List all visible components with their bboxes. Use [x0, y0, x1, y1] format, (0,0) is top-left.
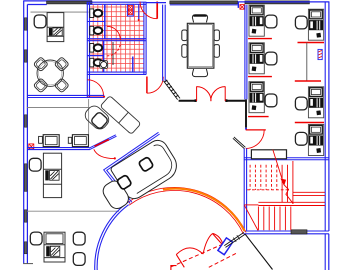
wall: conference west (double): [162, 5, 164, 81]
entrance door arc 2: [203, 233, 213, 254]
conf chair west 1: [182, 30, 187, 41]
wall: left exterior inner line: [26, 5, 28, 264]
wall: hall diagonal (double black): [234, 137, 246, 147]
chair angled workstation: [90, 111, 108, 129]
entrance axis dashed 2: [209, 252, 238, 267]
entrance door arc 1: [176, 248, 203, 255]
stair arrow head: [280, 179, 286, 186]
reception desk main: [110, 137, 182, 203]
desk B mid-left: [68, 137, 71, 143]
window mullion blocks on left wall: [24, 18, 27, 254]
wall marker right: [318, 49, 322, 59]
counter line y=211: [27, 210, 119, 212]
entrance axis dashed 1: [171, 242, 227, 267]
chair bottom-left east1: [73, 232, 85, 245]
WC shower wall: [132, 57, 134, 73]
stair upper flight treads (dashed): [247, 165, 288, 190]
chair lower-left office: [29, 158, 41, 171]
workstation R1 (mirrored): [308, 9, 323, 40]
conf chair west 2: [182, 45, 187, 58]
conference table: [187, 23, 214, 68]
column marker left wall: [29, 144, 34, 149]
wash basin: [100, 61, 108, 69]
round meeting table: [37, 60, 63, 86]
conf chair north: [192, 15, 207, 23]
entrance door arc 3: [213, 233, 224, 245]
vestibule door leaf: [88, 95, 104, 97]
desk bottom-left: [44, 232, 65, 262]
vestibule door arc: [88, 80, 104, 96]
stair landing lines: [293, 191, 325, 193]
door arc corridor bottom: [147, 77, 163, 93]
bathroom floor tile grid: [90, 5, 144, 72]
door arc corridor top: [140, 2, 157, 19]
lobby curved glazing red (double arc): [127, 187, 246, 232]
partition L1: [248, 38, 272, 40]
partition R2: [295, 80, 321, 82]
wall: y=148 horizontal (double): [27, 147, 89, 149]
desk top-left office: [47, 13, 64, 42]
entrance corner mark: [171, 266, 177, 270]
table chair NW: [33, 57, 48, 72]
wall: stair room west (double): [243, 148, 245, 230]
wall: bathroom west (double): [86, 2, 88, 97]
ramp cross ticks: [233, 235, 240, 242]
wall: black segment below: [245, 99, 247, 127]
toilet 3: [90, 44, 102, 53]
wall: stair room north (double): [244, 157, 329, 159]
counter line under top wall: [31, 11, 89, 13]
wall: WC divider vertical upper: [104, 4, 106, 38]
workstation L3: [249, 82, 264, 113]
partition R3: [295, 122, 324, 124]
table chair SE: [54, 78, 69, 93]
node: wall end dot: [103, 96, 105, 98]
door jamb blocks: [195, 99, 197, 102]
entrance door leaf 2: [213, 234, 224, 246]
counter line y=107: [27, 107, 90, 109]
entrance mat (blue): [218, 238, 233, 255]
chair R1: [295, 16, 307, 29]
workstation R3 (mirrored): [308, 125, 323, 156]
conf chair east 1: [214, 30, 219, 41]
wall: WC sub divider: [87, 55, 103, 57]
window band conference top: [170, 1, 238, 4]
door arc stair hall: [246, 130, 264, 148]
toilet 2: [90, 26, 102, 35]
wall: top exterior (office): [23, 0, 92, 2]
stair stringers: [244, 150, 325, 231]
reception chair 2: [138, 157, 153, 172]
chair L1: [265, 15, 277, 28]
window band top-left: [47, 1, 92, 4]
wall: right exterior lower (double): [324, 234, 326, 270]
door leaf corridor bottom: [146, 77, 148, 94]
window sill line right: [306, 43, 308, 82]
sideboard table: [251, 150, 286, 159]
window band right room: [245, 1, 310, 4]
wall: mid office east boundary: [88, 99, 90, 148]
desk lower-left office: [43, 153, 61, 197]
wall: WC stall divider y=21.5: [87, 21, 105, 23]
door arc reception entry: [94, 149, 115, 158]
stair direction arrow: [273, 150, 284, 185]
chair L2: [265, 52, 277, 65]
door threshold block: [291, 230, 307, 234]
site boundary diagonal: [245, 234, 273, 270]
double door conference (M arcs): [197, 86, 226, 101]
wall: left exterior outer line: [23, 1, 25, 264]
conf chair east 2: [214, 45, 219, 58]
wall: reception diagonal SW inner line: [107, 134, 160, 202]
chair bottom-left west: [30, 232, 42, 245]
door arc WC lower: [107, 43, 120, 56]
chair R3: [295, 132, 307, 145]
wall: diagonal A (double): [89, 135, 116, 148]
wall: right exterior (double): [324, 2, 326, 231]
reception desk return: [100, 178, 131, 211]
wall: WC bottom (double): [87, 71, 146, 73]
chair R2: [295, 97, 307, 110]
wall: office east / conference east (double): [244, 5, 246, 100]
wall: office/corridor horizontal y=96 (double): [27, 94, 104, 96]
chair bottom-left east2: [73, 253, 85, 266]
conf chair south: [192, 69, 207, 77]
stair lower flight treads: [257, 207, 259, 231]
entrance door leaf 1: [176, 255, 184, 268]
wall: WC divider vertical lower: [103, 41, 105, 72]
wall: WC divider horizontal (double): [87, 38, 146, 40]
partition R1: [298, 42, 325, 44]
partition L3: [248, 116, 269, 118]
toilet 4: [90, 58, 102, 67]
bottom-left corner tick: [23, 263, 33, 265]
wall: conference SW diagonal (hatched): [164, 80, 181, 100]
angled workstation below WC: [100, 96, 141, 135]
stair edge diagonal: [244, 205, 258, 230]
door leaf stair hall: [246, 129, 266, 131]
lobby curved wall blue (double arc): [95, 203, 128, 270]
door leaf corridor top: [156, 2, 158, 19]
workstation L2: [249, 43, 264, 74]
wall: corridor top: [146, 2, 166, 4]
chair top-left office: [34, 15, 46, 28]
reception chair 1: [116, 175, 131, 190]
chair L3: [265, 94, 277, 107]
door leaf on diagonal A: [95, 140, 108, 146]
partition L2: [248, 76, 272, 78]
table chair SW: [33, 78, 48, 93]
wall: top exterior right + NE corner: [238, 1, 330, 3]
duct shaft fixture top-right: [127, 4, 133, 16]
wall: bathroom north (double): [87, 1, 147, 3]
ramp rails (double black): [224, 232, 244, 245]
workstation R2 (mirrored): [308, 87, 323, 118]
wall stub top right of conference: [237, 2, 239, 8]
column marker top: [240, 5, 245, 10]
toilet 1: [90, 9, 102, 18]
lobby glazing orange band: [163, 189, 245, 232]
wall: conference south black segments: [179, 100, 196, 102]
wall: bathroom east (double): [143, 2, 145, 75]
workstation L1: [249, 5, 264, 36]
table chair NE: [54, 57, 69, 72]
wall: reception diagonal NE (double): [104, 132, 159, 203]
WC stall partition line: [112, 42, 114, 65]
door arc WC upper: [107, 26, 120, 39]
desk A mid-left: [39, 136, 43, 143]
wall: stair room south (double): [244, 230, 329, 232]
